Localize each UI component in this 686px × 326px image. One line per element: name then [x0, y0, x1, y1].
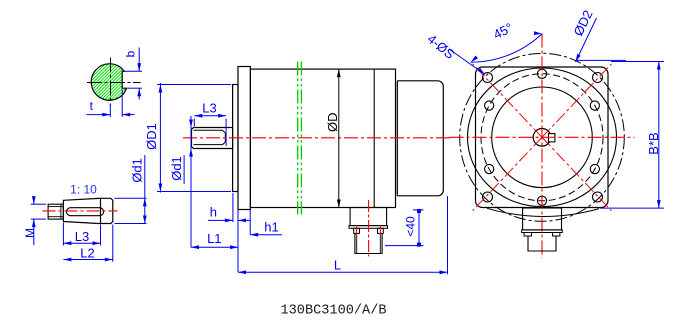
svg-text:h1: h1 — [264, 219, 278, 234]
svg-text:B*B: B*B — [646, 132, 661, 154]
svg-text:b: b — [124, 50, 138, 57]
svg-text:1: 10: 1: 10 — [70, 182, 97, 196]
svg-text:L1: L1 — [207, 231, 221, 246]
svg-text:L: L — [334, 257, 341, 272]
svg-text:L3: L3 — [75, 229, 89, 244]
svg-text:130BC3100/A/B: 130BC3100/A/B — [280, 304, 386, 319]
svg-text:L3: L3 — [202, 101, 216, 116]
svg-text:L2: L2 — [80, 246, 94, 261]
svg-text:<40: <40 — [404, 216, 418, 237]
svg-text:Ød1: Ød1 — [169, 156, 184, 181]
svg-text:ØD: ØD — [325, 112, 340, 132]
svg-text:Ød1: Ød1 — [130, 158, 145, 183]
svg-text:h: h — [210, 205, 217, 220]
svg-text:M: M — [23, 228, 37, 238]
svg-text:ØD1: ØD1 — [144, 123, 159, 150]
